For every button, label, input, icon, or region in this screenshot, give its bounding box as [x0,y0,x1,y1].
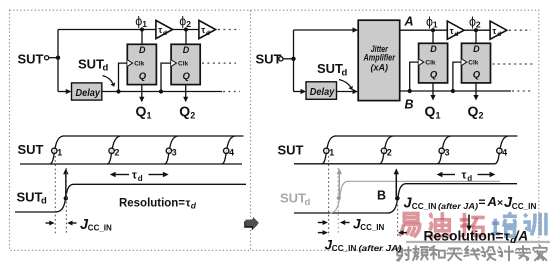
svg-text:Resolution=: Resolution= [119,195,185,209]
svg-text:(xA): (xA) [371,62,389,72]
wire terminal to junction (right) [283,58,293,60]
wire Q2 output arrow (right) [475,83,477,97]
wire delay output to JA [337,91,354,93]
Jcc_in after JA measure arrows (right row2) [318,232,325,234]
edge phi1 [50,136,63,164]
wire dotted mid tail (clk level) [202,62,236,64]
svg-text:τ: τ [450,26,454,36]
Jcc_in measure arrows [46,222,52,224]
flip-flop FF3 [419,43,448,83]
watermark char yi (red) [399,213,419,237]
char ji [499,246,514,260]
label J_CC_IN (after JA)=AxJ_CC_IN [404,194,537,211]
svg-text:τ: τ [504,229,510,244]
svg-text:3: 3 [172,147,177,157]
svg-text:Resolution=: Resolution= [424,229,504,244]
black up arrow [395,172,397,196]
dotted vertical at phi1 edge (right) [328,156,330,236]
delay block (left) [72,83,102,100]
svg-text:2: 2 [387,147,392,157]
svg-text:SUT: SUT [18,142,44,157]
edge phi2 [107,136,120,164]
svg-text:SUT: SUT [280,191,306,206]
svg-text:Delay: Delay [310,87,335,98]
svg-text:1: 1 [329,147,334,157]
node phi1 dot (right) [431,28,435,32]
wire Q1 output arrow (right) [432,83,434,97]
curved pointer arrow SUTd to wire (right) [339,80,351,88]
buffer tau_d U3 [447,21,464,39]
SUTd low rail (right) [294,212,389,214]
svg-text:Clk: Clk [178,61,189,68]
left panel dotted frame [10,10,251,250]
watermark char di (red) [428,212,452,236]
wire vertical from SUT junction [57,30,59,92]
svg-text:Clk: Clk [468,60,479,67]
flip-flop FF1 [127,44,156,84]
tau_d measure arrows [110,170,169,183]
watermark char tuo (red) [460,213,485,236]
wire stub phi2 to D (right) [475,30,477,43]
char pin [413,246,428,260]
svg-text:1: 1 [142,19,147,29]
svg-text:D: D [473,44,480,54]
svg-text:SUT: SUT [18,51,44,66]
svg-text:2: 2 [190,110,195,120]
svg-text:B: B [377,189,386,203]
watermark char pei (blue) [491,212,517,236]
svg-text:Q: Q [473,70,481,81]
wire clk rail from delay [102,91,222,93]
SUT input terminal circle [45,56,49,60]
SUTd high rail [73,183,246,185]
svg-text:Q: Q [139,71,147,82]
wire SUT terminal to junction [49,57,58,59]
black dotted vertical at B edge [397,201,399,237]
wire stub phi1 to D input [141,30,143,45]
wire dotted mid tail (right clk level) [493,63,534,65]
wire dotted phase tail (right) [509,29,531,31]
svg-text:SUT: SUT [17,189,43,204]
gray sampling dot [337,196,341,200]
svg-text:1: 1 [57,147,62,157]
svg-text:Delay: Delay [76,88,101,99]
svg-text:Q: Q [430,70,438,81]
gray dotted vertical at gray edge [337,168,339,234]
svg-text:SUT: SUT [278,143,304,158]
buffer tau_d U4 [490,21,507,39]
char jia [533,246,546,261]
svg-text:A: A [487,194,497,209]
svg-text:(after JA): (after JA) [438,202,478,211]
svg-text:Q: Q [179,103,190,119]
svg-text:CC_IN: CC_IN [512,202,537,211]
svg-text:CC_IN: CC_IN [88,223,112,232]
wire top phase line [58,29,156,31]
svg-text:Q: Q [136,103,147,119]
SUT low rail [20,163,242,165]
wire arrow into Delay (right) [294,91,302,93]
svg-text:D: D [430,44,437,54]
svg-text:d: d [206,30,210,37]
wire dotted B rail tail [512,90,533,92]
wire between buffers (right) [464,29,490,31]
wire Q1 output arrow [141,85,143,99]
wire stub phi1 to D (right) [432,30,434,43]
svg-text:d: d [342,67,348,78]
svg-text:SUT: SUT [317,61,343,76]
svg-text:CC_IN: CC_IN [360,223,384,232]
junction clk to FF2 [159,89,163,93]
flip-flop FF4 [462,43,491,83]
curved pointer arrow SUTd to wire [103,76,113,84]
edge phi4 (right) [495,136,508,164]
SUT input terminal circle (right) [279,57,283,61]
junction SUT node (right) [291,57,295,61]
svg-text:B: B [405,98,414,112]
watermark char xun (blue) [523,213,546,236]
svg-text:Clk: Clk [425,60,436,67]
edge phi2 (right) [379,136,392,164]
edge phi3 (right) [437,136,450,164]
buffer tau_d U2 [199,20,216,38]
SUTd low rail [15,211,57,213]
svg-text:d: d [163,30,167,37]
up arrow at SUTd edge [65,172,67,197]
junction B to FF4 [451,89,455,93]
edge phi4 [222,136,235,164]
watermark underline bar [406,241,550,243]
gray up arrow [338,172,340,196]
svg-text:2: 2 [479,110,484,120]
svg-text:(after JA): (after JA) [359,244,402,253]
svg-text:Clk: Clk [134,61,145,68]
node phi2 dot [184,27,188,31]
wire dotted clk rail tail [223,91,240,93]
char she [397,246,411,260]
SUT high rail [63,135,244,137]
svg-text:1: 1 [433,19,438,29]
SUT high rail (right) [334,135,518,137]
svg-text:CC_IN: CC_IN [332,244,357,253]
svg-text:2: 2 [186,19,191,29]
svg-text:2: 2 [476,19,481,29]
measure arrow into B dotted line [402,232,407,234]
svg-text:D: D [183,45,190,55]
big arrow between panels [244,217,259,231]
wire dotted continuation of phase line [218,29,240,31]
svg-text:τ: τ [158,25,162,35]
char he [430,246,445,259]
junction SUT node [56,56,60,60]
svg-text:/A: /A [514,229,529,244]
svg-text:d: d [454,31,458,38]
junction clk to FF1 [116,89,120,93]
svg-text:1: 1 [436,110,441,120]
delay block (right) [306,82,337,100]
svg-text:τ: τ [186,197,191,209]
SUTd rising edge [56,184,73,212]
char xian [464,246,479,259]
flip-flop FF2 [171,44,200,84]
right panel dotted frame [251,10,539,250]
wire vertical (right) [293,30,295,92]
svg-text:4: 4 [229,147,234,157]
svg-text:d: d [103,63,109,74]
black amplified edge (node B) [388,184,406,213]
wire B clk rail [400,90,511,92]
wire JA output A to phase line [400,29,448,31]
wire stub phi2 to D input [185,30,187,45]
wire Q2 output arrow [185,85,187,99]
svg-text:τ: τ [201,25,205,35]
svg-text:τ: τ [132,170,137,182]
svg-text:Q: Q [183,71,191,82]
svg-text:d: d [138,174,143,183]
buffer tau_d U1 [156,20,173,38]
wire arrow into Delay [58,91,67,93]
black high rail after JA [406,183,518,185]
down arrow to Resolution [468,215,470,228]
node phi2 dot (right) [474,28,478,32]
black sampling dot [395,196,400,201]
char tian [447,249,462,261]
svg-text:SUT: SUT [256,52,282,67]
svg-text:×: × [497,197,503,209]
svg-text:4: 4 [502,147,507,157]
wire arrow into JA top input [294,29,354,31]
tau_d measure arrows (right) [437,170,496,183]
svg-text:CC_IN: CC_IN [412,202,437,211]
char zhuan [516,246,531,260]
svg-text:2: 2 [115,147,120,157]
svg-text:D: D [139,45,146,55]
junction B to FF3 [408,89,412,93]
dotted vertical at SUTd edge [65,168,67,234]
svg-text:d: d [41,196,47,207]
edge phi3 [164,136,177,164]
sampling dot on SUTd edge [64,196,68,200]
svg-text:d: d [191,200,197,210]
dotted vertical at phi1 edge [54,156,56,234]
edge phi1 (right) [322,136,335,164]
svg-text:d: d [305,197,311,208]
svg-text:SUT: SUT [78,56,104,71]
SUT low rail (right) [294,163,495,165]
node phi1 dot [140,27,144,31]
svg-text:Q: Q [425,103,436,119]
svg-text:1: 1 [147,110,152,120]
jitter amplifier block U5 [358,20,400,100]
gray SUTd rising edge [330,181,348,213]
Jcc_in measure arrows (right row1) [318,222,325,224]
gray SUTd high rail [348,180,501,182]
svg-text:d: d [497,31,501,38]
svg-text:3: 3 [445,147,450,157]
svg-text:=: = [479,195,486,209]
char she2 [481,247,495,260]
wire between buffers [173,29,199,31]
svg-text:A: A [404,15,414,29]
svg-text:Amplifier: Amplifier [363,53,396,63]
svg-text:τ: τ [492,26,496,36]
svg-text:Q: Q [468,103,479,119]
watermark slogan row (gray) [397,246,547,261]
svg-text:τ: τ [462,170,467,182]
